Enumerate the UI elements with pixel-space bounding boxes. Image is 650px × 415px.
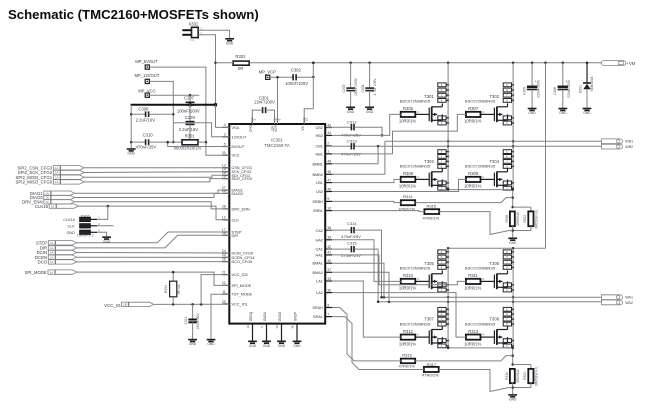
svg-text:GND: GND bbox=[347, 110, 355, 114]
IC301 right pin 38 CA2 bbox=[316, 226, 332, 233]
svg-text:SRAL: SRAL bbox=[313, 315, 323, 319]
svg-text:1A: 1A bbox=[55, 166, 58, 170]
svg-text:GNDQ: GNDQ bbox=[249, 311, 253, 321]
svg-text:1A: 1A bbox=[55, 171, 58, 175]
svg-text:44: 44 bbox=[327, 131, 331, 135]
svg-text:DCO: DCO bbox=[38, 260, 48, 265]
IC301 left pin 23 DCEN_CFG4 bbox=[222, 253, 255, 260]
test point MP_5VOUT bbox=[135, 59, 158, 69]
IC301 left pin 14 SCK_CFG2 bbox=[222, 168, 252, 175]
svg-text:MP_12VOUT: MP_12VOUT bbox=[135, 73, 160, 78]
svg-text:VCC_IO1: VCC_IO1 bbox=[232, 303, 248, 307]
svg-text:SRAH: SRAH bbox=[312, 306, 323, 310]
wire GNDD to ground bbox=[281, 330, 283, 342]
wire sense bottom bus to ground bbox=[511, 383, 530, 395]
svg-text:R313: R313 bbox=[468, 329, 479, 334]
svg-text:0R05/1W n.b.: 0R05/1W n.b. bbox=[534, 209, 538, 229]
svg-text:CB2: CB2 bbox=[316, 126, 323, 130]
wire VCP node bbox=[270, 76, 315, 124]
svg-text:40: 40 bbox=[327, 259, 331, 263]
svg-text:BSC072N08NS5: BSC072N08NS5 bbox=[400, 321, 431, 326]
net tag CLK16 bbox=[35, 204, 79, 209]
svg-text:GND: GND bbox=[528, 111, 536, 115]
IC301 right pin 45 BMB2 bbox=[313, 170, 332, 177]
wire DIR to IC bbox=[77, 235, 230, 248]
wire HB2 to R305 bbox=[332, 114, 401, 135]
svg-text:R322: R322 bbox=[523, 215, 527, 223]
IC301 right pin 7 SRAL bbox=[313, 312, 332, 319]
svg-text:4.7uF 100V: 4.7uF 100V bbox=[373, 78, 377, 96]
IC301 top pin 2 CPO bbox=[249, 117, 257, 132]
svg-text:GND: GND bbox=[189, 342, 197, 346]
IC301 left pin 17 STEP bbox=[222, 228, 242, 235]
wire VSA pin to bus bbox=[216, 105, 230, 128]
svg-text:GND: GND bbox=[128, 152, 136, 156]
wire phase A line 1 (WA1) bbox=[382, 296, 602, 299]
wire phase B line 2 (WB2) bbox=[354, 145, 601, 148]
ground symbol under pin GNDP bbox=[293, 341, 302, 348]
resistor R319 0R05/1W bbox=[505, 365, 531, 384]
transistor T307 BSC072N08NS5 bbox=[400, 317, 443, 345]
svg-text:TST_MODE: TST_MODE bbox=[232, 293, 253, 297]
svg-text:DIAG0: DIAG0 bbox=[232, 192, 243, 196]
net tag DCIN bbox=[37, 250, 77, 255]
wire phase A line 2 (WA2) bbox=[378, 300, 601, 303]
svg-text:HB2: HB2 bbox=[316, 134, 323, 138]
net tag DCO bbox=[38, 260, 77, 265]
wire R316 to sense bbox=[415, 356, 513, 361]
svg-text:2: 2 bbox=[327, 142, 329, 146]
svg-text:C314: C314 bbox=[347, 221, 357, 226]
svg-text:45: 45 bbox=[327, 170, 331, 174]
svg-text:49: 49 bbox=[291, 325, 295, 329]
wire DIAG0 to IC bbox=[75, 193, 230, 197]
wire sense bottom bus to ground bbox=[511, 226, 530, 238]
capacitor C302 100nF/100V bbox=[285, 67, 308, 86]
T308 drain pin strip bbox=[503, 307, 514, 326]
svg-text:1A: 1A bbox=[55, 175, 58, 179]
IC301 right pin 42 CA1 bbox=[316, 245, 332, 252]
svg-text:R305: R305 bbox=[403, 106, 414, 111]
svg-text:BMB1: BMB1 bbox=[313, 162, 323, 166]
T306 source pin strip bbox=[503, 283, 514, 292]
IC301 right pin 46 LB2 bbox=[316, 187, 332, 194]
connector WA1 bbox=[602, 295, 633, 300]
IC301 left pin 20 VCC bbox=[222, 151, 240, 158]
ground symbol under pin GNDA bbox=[262, 341, 271, 348]
svg-text:GND: GND bbox=[263, 344, 271, 348]
svg-text:0R05/1W n.b.: 0R05/1W n.b. bbox=[534, 366, 538, 386]
net tag VCC_IO bbox=[104, 302, 154, 308]
svg-text:33: 33 bbox=[327, 277, 331, 281]
svg-text:R319: R319 bbox=[505, 372, 509, 380]
svg-text:BSC072N08NS5: BSC072N08NS5 bbox=[465, 266, 496, 271]
svg-text:GND: GND bbox=[559, 111, 567, 115]
wire sense node down bbox=[511, 188, 514, 208]
IC301 right pin 37 BMA2 bbox=[313, 268, 332, 275]
wire X301 pin1 to CLK16 bbox=[97, 206, 108, 219]
transistor T304 BSC072N08NS5 bbox=[465, 159, 508, 187]
svg-text:HA2: HA2 bbox=[316, 238, 323, 242]
svg-text:DCIN_CFG5: DCIN_CFG5 bbox=[232, 252, 254, 256]
svg-text:R301: R301 bbox=[185, 134, 196, 139]
svg-text:2.2uF/16V: 2.2uF/16V bbox=[136, 118, 156, 123]
wire SPI2_MOSI_CFG1 to IC bbox=[84, 175, 229, 177]
wire SRAL to R317 bbox=[332, 317, 424, 370]
svg-text:R316: R316 bbox=[402, 353, 412, 358]
wire T305 column bbox=[447, 248, 450, 348]
ground symbol under pin GNDD bbox=[277, 341, 286, 348]
connector X301 bbox=[63, 214, 100, 238]
svg-text:R318: R318 bbox=[505, 215, 509, 223]
svg-text:CLK: CLK bbox=[68, 224, 76, 228]
wire DRV_ENN to IC bbox=[75, 202, 230, 209]
wire R315 to sense bottom bbox=[439, 212, 513, 235]
svg-text:10R0/1%: 10R0/1% bbox=[464, 119, 482, 124]
svg-text:46: 46 bbox=[327, 187, 331, 191]
svg-text:VCC_IO2: VCC_IO2 bbox=[232, 273, 248, 277]
IC301 left pin 22 SPI_MODE bbox=[222, 281, 252, 288]
svg-text:GNDA: GNDA bbox=[263, 311, 267, 321]
svg-text:D301: D301 bbox=[579, 85, 583, 93]
connector +VM bbox=[602, 61, 636, 66]
T307 drain pin strip bbox=[438, 307, 449, 326]
wire VM rail bbox=[216, 62, 602, 65]
T306 drain pin strip bbox=[503, 250, 514, 270]
svg-text:DRV_ENN: DRV_ENN bbox=[232, 207, 250, 211]
svg-text:1A: 1A bbox=[50, 260, 53, 264]
svg-text:Schematic (TMC2160+MOSFETs sho: Schematic (TMC2160+MOSFETs shown) bbox=[8, 7, 259, 22]
svg-text:47R0/1%: 47R0/1% bbox=[423, 215, 440, 220]
capacitor C305 220uF/100V bbox=[522, 63, 540, 115]
svg-text:R310: R310 bbox=[403, 273, 414, 278]
svg-text:1A: 1A bbox=[50, 255, 53, 259]
test point MP_VCP bbox=[259, 69, 276, 79]
transistor T308 BSC072N08NS5 bbox=[465, 317, 508, 345]
wire HA1 to R311 bbox=[332, 255, 466, 285]
resistor R312 10R0/1% bbox=[399, 329, 417, 347]
wire X301 pin2 bbox=[97, 225, 113, 227]
svg-text:CA2: CA2 bbox=[316, 229, 323, 233]
svg-text:BMB2: BMB2 bbox=[313, 173, 323, 177]
svg-text:CLK: CLK bbox=[232, 218, 240, 222]
svg-text:C306: C306 bbox=[553, 87, 557, 95]
svg-text:DIR: DIR bbox=[232, 234, 239, 238]
svg-text:GNDD: GNDD bbox=[278, 311, 282, 321]
svg-text:R302: R302 bbox=[235, 54, 246, 59]
net tag SPI2_SCK_CFG2 bbox=[18, 170, 84, 175]
IC301 right pin 8 SRAH bbox=[312, 303, 332, 310]
svg-text:1A: 1A bbox=[50, 246, 53, 250]
svg-text:R309: R309 bbox=[468, 171, 479, 176]
T301 source pin strip bbox=[438, 116, 449, 125]
wire LA1 to R312 bbox=[332, 281, 401, 337]
IC301 right pin 33 LA1 bbox=[316, 277, 332, 284]
svg-text:10R0/1%: 10R0/1% bbox=[464, 286, 482, 291]
svg-text:1A: 1A bbox=[50, 270, 53, 274]
svg-text:220uF/100V: 220uF/100V bbox=[536, 79, 540, 98]
resistor R302 0R bbox=[233, 54, 249, 71]
svg-text:23: 23 bbox=[304, 118, 308, 122]
T308 source pin strip bbox=[503, 339, 514, 348]
wire DCIN to IC bbox=[77, 252, 230, 255]
svg-text:25: 25 bbox=[222, 257, 226, 261]
svg-text:0R05/1W: 0R05/1W bbox=[516, 369, 520, 382]
wire MP_5VOUT / VCC net bbox=[149, 67, 229, 155]
svg-text:GND: GND bbox=[293, 344, 301, 348]
svg-text:10R0/1%: 10R0/1% bbox=[399, 341, 417, 346]
IC301 bottom pin 19 GNDQ bbox=[246, 311, 253, 330]
net tag SPI2_MISO_CFG0 bbox=[16, 180, 85, 185]
svg-text:VCP: VCP bbox=[274, 125, 278, 132]
IC301 left pin 26 DIAG0 bbox=[222, 189, 243, 196]
svg-text:1B: 1B bbox=[123, 303, 126, 307]
svg-text:R311: R311 bbox=[468, 273, 478, 278]
IC301 left pin 5 5VOUT bbox=[223, 142, 245, 149]
resistor R317 47R0/1% bbox=[422, 362, 439, 378]
connector WB1 bbox=[602, 139, 634, 144]
svg-text:1A: 1A bbox=[50, 251, 53, 255]
T305 drain pin strip bbox=[438, 250, 449, 270]
svg-text:1: 1 bbox=[327, 150, 329, 154]
svg-text:SPI2_MISO_CFG0: SPI2_MISO_CFG0 bbox=[16, 180, 53, 185]
svg-text:C307: C307 bbox=[184, 96, 195, 101]
svg-text:11: 11 bbox=[222, 290, 226, 294]
IC301 right pin 41 HA1 bbox=[316, 251, 332, 258]
IC301 left pin 21 VCC_IO2 bbox=[222, 270, 248, 277]
svg-text:CLK16: CLK16 bbox=[63, 218, 75, 222]
svg-text:470nF/25V: 470nF/25V bbox=[341, 234, 361, 239]
svg-text:4: 4 bbox=[224, 123, 226, 127]
svg-text:41: 41 bbox=[327, 251, 331, 255]
net tag SPI2_CSN_CFG3 bbox=[17, 166, 84, 171]
IC301 right pin 1 HB1 bbox=[316, 150, 332, 157]
svg-text:DCO_CFG6: DCO_CFG6 bbox=[232, 260, 253, 264]
svg-text:HA1: HA1 bbox=[316, 253, 323, 257]
wire left vertical to ground bbox=[130, 105, 133, 149]
svg-text:30: 30 bbox=[275, 325, 279, 329]
resistor R316 47R0/1% bbox=[399, 353, 416, 369]
wire sense line B bbox=[447, 188, 513, 191]
wire VM feed line phase A bbox=[447, 247, 546, 250]
svg-text:0R n.b.: 0R n.b. bbox=[177, 284, 181, 295]
IC301 right pin 40 BMA1 bbox=[313, 259, 332, 266]
svg-text:GND: GND bbox=[103, 240, 111, 244]
svg-text:47R0/1%: 47R0/1% bbox=[422, 373, 439, 378]
wire LA2 to R313 bbox=[332, 293, 466, 338]
svg-text:R312: R312 bbox=[403, 329, 414, 334]
net tag SPI_MODE bbox=[25, 270, 77, 275]
svg-text:WA2: WA2 bbox=[625, 301, 633, 305]
svg-text:10R0/1%: 10R0/1% bbox=[399, 286, 417, 291]
IC301 bottom pin 6 GNDA bbox=[260, 311, 267, 330]
wire X302 pin2 to VM node bbox=[198, 35, 217, 105]
svg-text:CB1: CB1 bbox=[316, 144, 323, 148]
IC301 left pin 28 DRV_ENN bbox=[222, 205, 250, 212]
connector WB2 bbox=[602, 144, 634, 149]
svg-text:28: 28 bbox=[222, 205, 226, 209]
IC301 left pin 27 DIAG1 bbox=[222, 186, 243, 193]
svg-text:12VOUT: 12VOUT bbox=[232, 135, 247, 139]
net tag DIAG0 bbox=[30, 195, 75, 200]
IC301 right pin 39 HA2 bbox=[316, 236, 332, 243]
svg-text:GND: GND bbox=[583, 111, 591, 115]
svg-text:22: 22 bbox=[222, 281, 226, 285]
svg-text:HB1: HB1 bbox=[316, 152, 323, 156]
IC301 right pin 48 BMB1 bbox=[313, 160, 332, 167]
svg-text:R308: R308 bbox=[403, 171, 414, 176]
T302 drain pin strip bbox=[503, 83, 514, 103]
IC301 left pin 18 DIR bbox=[222, 231, 238, 238]
transistor T305 BSC072N08NS5 bbox=[400, 261, 443, 289]
svg-text:C308: C308 bbox=[138, 106, 149, 111]
svg-text:10R0/1%: 10R0/1% bbox=[399, 119, 417, 124]
svg-text:GNDP: GNDP bbox=[294, 312, 298, 321]
svg-text:SPI_MODE: SPI_MODE bbox=[25, 270, 47, 275]
IC301 left pin 4 VSA bbox=[223, 123, 240, 130]
IC301 top pin 6 VCP bbox=[274, 117, 282, 131]
wire SRBL to R315 bbox=[332, 211, 424, 212]
T301 drain pin strip bbox=[438, 83, 449, 103]
capacitor C315 470nF/25V bbox=[327, 241, 380, 303]
wire GNDA to ground bbox=[266, 330, 268, 342]
IC301 top pin 23 VS bbox=[301, 117, 309, 130]
svg-text:LA2: LA2 bbox=[316, 291, 323, 295]
svg-text:1A: 1A bbox=[51, 204, 54, 208]
IC301 left pin 16 SDO_CFG0 bbox=[222, 174, 252, 181]
wire T306 column bbox=[512, 248, 515, 348]
svg-text:SRBH: SRBH bbox=[312, 200, 323, 204]
ground symbol TST_MODE bbox=[207, 340, 216, 347]
svg-text:LA1: LA1 bbox=[316, 280, 323, 284]
transistor T302 BSC072N08NS5 bbox=[465, 94, 508, 122]
capacitor C304 4.7uF 100V bbox=[361, 63, 377, 114]
resistor R323 0R05/1W n.b. bbox=[523, 366, 538, 387]
wire VM drop long to phase A bbox=[545, 63, 547, 248]
T302 source pin strip bbox=[503, 116, 514, 125]
svg-text:LB1: LB1 bbox=[316, 181, 323, 185]
svg-text:7: 7 bbox=[327, 312, 329, 316]
svg-text:C305: C305 bbox=[522, 87, 526, 95]
svg-text:SRBL: SRBL bbox=[313, 209, 323, 213]
svg-text:39: 39 bbox=[327, 236, 331, 240]
resistor R322 0R05/1W n.b. bbox=[523, 209, 538, 231]
svg-text:VCC_IO: VCC_IO bbox=[104, 303, 121, 308]
svg-text:19: 19 bbox=[246, 325, 250, 329]
net tag DCEN bbox=[35, 255, 77, 260]
IC301 left pin 15 SDI_CFG1 bbox=[222, 171, 250, 178]
svg-text:C313: C313 bbox=[347, 139, 357, 144]
ground symbol X301 bbox=[102, 237, 111, 244]
capacitor C314 470nF/25V bbox=[327, 221, 383, 298]
IC301 right pin 10 SRBL bbox=[313, 206, 332, 213]
IC301 left pin 12 CLK bbox=[222, 216, 240, 223]
IC301 right pin 43 CB2 bbox=[316, 123, 332, 130]
wire DIAG1 to IC bbox=[75, 190, 230, 193]
resistor R301 0603/2R20/1% bbox=[174, 134, 206, 151]
title bbox=[8, 7, 259, 22]
resistor R314 47R0/1% bbox=[399, 194, 416, 211]
net tag DRV_ENN bbox=[22, 200, 74, 205]
wire TST_MODE to ground bbox=[211, 294, 229, 339]
svg-text:SPI_MODE: SPI_MODE bbox=[232, 284, 252, 288]
wire sense node down bbox=[511, 347, 514, 366]
svg-text:C303: C303 bbox=[342, 84, 346, 92]
IC301 right pin 47 LB1 bbox=[316, 178, 332, 185]
svg-text:100nF/100V: 100nF/100V bbox=[177, 109, 200, 114]
wire MP_VCC to C307 bbox=[149, 94, 199, 97]
svg-text:BSC072N08NS5: BSC072N08NS5 bbox=[465, 164, 496, 169]
svg-text:2.2uF/16V: 2.2uF/16V bbox=[179, 127, 199, 132]
svg-text:100nF/50V: 100nF/50V bbox=[196, 313, 200, 330]
wire GNDP to ground bbox=[296, 330, 298, 342]
svg-text:BSC072N08NS5: BSC072N08NS5 bbox=[400, 99, 431, 104]
resistor R310 10R0/1% bbox=[399, 273, 417, 291]
wire HA2 to R310 bbox=[332, 240, 401, 282]
ground symbol left cluster bbox=[127, 149, 136, 156]
svg-text:R314: R314 bbox=[403, 194, 413, 199]
IC301 left pin 11 TST_MODE bbox=[222, 290, 253, 297]
wire DCEN to IC bbox=[77, 256, 230, 258]
svg-text:470nF/25V: 470nF/25V bbox=[341, 253, 361, 258]
svg-text:9: 9 bbox=[327, 197, 329, 201]
svg-text:DRD0-1-2: DRD0-1-2 bbox=[77, 233, 93, 237]
svg-text:0R: 0R bbox=[238, 66, 243, 71]
T305 source pin strip bbox=[438, 283, 449, 292]
IC301 bottom pin 30 GNDD bbox=[275, 311, 282, 330]
wire X302 pin1 to ground bbox=[198, 30, 229, 39]
svg-text:10R0/1%: 10R0/1% bbox=[464, 341, 482, 346]
svg-text:C310: C310 bbox=[143, 133, 154, 138]
svg-text:h.b.: h.b. bbox=[191, 38, 196, 42]
svg-text:12: 12 bbox=[222, 216, 226, 220]
svg-text:GND: GND bbox=[226, 41, 234, 45]
IC301 right pin 9 SRBH bbox=[312, 197, 332, 204]
svg-text:BSC072N08NS5: BSC072N08NS5 bbox=[400, 266, 431, 271]
svg-text:VCC: VCC bbox=[232, 154, 240, 158]
resistor R307 10R0/1% bbox=[464, 106, 482, 124]
junction CLK16/X301 bbox=[107, 205, 110, 208]
svg-text:22nF/100V: 22nF/100V bbox=[254, 100, 275, 105]
svg-text:SMB340A: SMB340A bbox=[590, 76, 594, 92]
net tag DIR bbox=[40, 246, 77, 251]
svg-text:42: 42 bbox=[327, 245, 331, 249]
svg-text:LB2: LB2 bbox=[316, 190, 323, 194]
test point MP_12VOUT bbox=[135, 73, 160, 83]
capacitor C310 470nF/25V bbox=[131, 133, 182, 150]
svg-text:GND: GND bbox=[509, 398, 517, 402]
svg-text:47: 47 bbox=[327, 178, 331, 182]
svg-text:1A: 1A bbox=[46, 196, 49, 200]
svg-text:100nF/100V: 100nF/100V bbox=[354, 77, 358, 96]
resistor R304 0R bbox=[164, 271, 181, 305]
IC301 left pin 29 VCC_IO1 bbox=[222, 300, 248, 307]
resistor R313 10R0/1% bbox=[464, 329, 482, 347]
svg-text:BSC072N08NS5: BSC072N08NS5 bbox=[465, 99, 496, 104]
svg-text:CLK16: CLK16 bbox=[35, 204, 49, 209]
svg-text:5: 5 bbox=[224, 142, 226, 146]
wire VM drop to T302 column bbox=[512, 63, 515, 190]
wire SRAH to R316 bbox=[332, 308, 401, 361]
svg-text:BSC072N08NS5: BSC072N08NS5 bbox=[465, 321, 496, 326]
svg-text:WB2: WB2 bbox=[625, 145, 633, 149]
bold VSA bus bbox=[131, 103, 218, 106]
resistor R308 10R0/1% bbox=[399, 171, 417, 189]
wire SPI2_SCK_CFG2 to IC bbox=[84, 171, 229, 174]
T303 source pin strip bbox=[438, 181, 449, 190]
svg-text:BMA2: BMA2 bbox=[313, 271, 323, 275]
connector WA2 bbox=[602, 300, 633, 305]
